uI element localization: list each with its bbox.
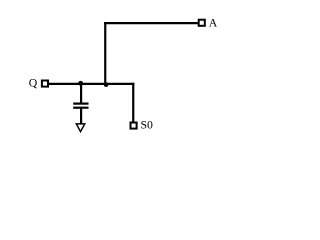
wire: capacitor C1 to ground (80, 108, 82, 124)
junction J1 (78, 81, 83, 86)
svg-text:Q: Q (29, 75, 38, 89)
wire: junction J2 to corner above S0 (105, 83, 134, 85)
svg-text:S0: S0 (141, 118, 154, 132)
wire: vertical from top corner down to junction J2 (104, 22, 106, 84)
wire: vertical down to terminal S0 (132, 83, 134, 122)
wire: terminal Q to junction J1 (49, 83, 81, 85)
terminal A (199, 20, 205, 26)
junction J2 (104, 82, 109, 87)
ground (76, 124, 85, 132)
wire: junction J1 to junction J2 (81, 83, 105, 85)
wire: junction J1 down to capacitor C1 (80, 84, 82, 104)
svg-text:A: A (209, 16, 218, 30)
terminal S0 (131, 123, 137, 129)
capacitor C1 bottom plate (73, 107, 88, 109)
capacitor C1 top plate (73, 102, 88, 104)
wire: top horizontal from corner to terminal A (104, 22, 198, 24)
terminal Q (42, 81, 48, 87)
